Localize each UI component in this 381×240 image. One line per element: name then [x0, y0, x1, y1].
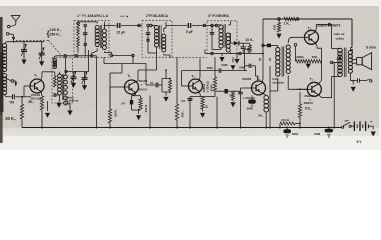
jack wires: [349, 73, 351, 80]
oscillator coil primary: [58, 74, 62, 78]
svg-text:5 K.,: 5 K.,: [305, 107, 312, 111]
svg-text:salida: salida: [335, 36, 344, 40]
T5 emitter: [315, 42, 317, 46]
wire C to IF3: [192, 25, 217, 27]
stray mark: [120, 15, 125, 17]
series capacitor .05 at T1 base: [10, 96, 11, 98]
bus node j: [299, 127, 301, 129]
IF1 bias resistor 250K: [77, 37, 80, 48]
variable capacitor C1c: [73, 72, 75, 77]
transistor T6: [307, 82, 321, 96]
page edge bar: [0, 17, 3, 143]
IF1 dashed box: [74, 21, 109, 58]
svg-text:6 V: 6 V: [357, 140, 363, 144]
svg-text:50M: 50M: [292, 132, 298, 136]
tap arrow: [14, 81, 16, 83]
svg-text:+: +: [370, 120, 372, 124]
ground C1b: [39, 61, 44, 66]
svg-text:.04: .04: [181, 99, 186, 103]
background paper: [0, 0, 381, 150]
wire to T1 base: [23, 86, 25, 97]
bias resistor 200 ohm: [296, 60, 309, 63]
svg-text:o 2SA49: o 2SA49: [243, 96, 255, 100]
diode D1: [230, 42, 234, 44]
IF1 secondary winding: [102, 29, 106, 33]
T2 base bias resistor 250K: [109, 87, 111, 109]
svg-text:10 K.,: 10 K.,: [245, 38, 254, 42]
antenna terminal node: [8, 25, 11, 28]
AGC wire y70: [182, 70, 219, 72]
wire top rail: [263, 18, 352, 20]
detector filter cap: [242, 43, 244, 46]
IF3 dashed box: [207, 21, 237, 54]
bottom bus wire: [22, 127, 342, 129]
jack symbol: [357, 78, 359, 82]
wire IF2 to C 5uF: [166, 25, 187, 27]
L1 bottom lead: [5, 95, 11, 97]
output transformer primary bottom: [332, 75, 340, 77]
IF2 secondary exit: [164, 54, 170, 57]
T2 neutralizing cap 04: [146, 84, 155, 86]
bus node b: [96, 127, 98, 129]
osc cap: [53, 94, 54, 96]
svg-text:200Ω: 200Ω: [296, 55, 304, 59]
osc feedback resistor: [53, 76, 56, 87]
wire x150 riser: [149, 96, 151, 128]
L1 tap wire: [5, 78, 12, 81]
svg-text:250 K.,: 250 K.,: [49, 33, 61, 37]
gang dashed link: [16, 39, 49, 41]
driver transformer secondary: [286, 45, 290, 49]
T3 decoupling ground: [232, 57, 234, 62]
svg-text:.04: .04: [121, 101, 126, 105]
svg-text:2SA12: 2SA12: [139, 88, 148, 92]
ferrite coil L1 lower winding: [3, 74, 7, 78]
detector bottom wire: [205, 53, 263, 55]
T3 collector wire: [199, 77, 200, 81]
riser to bus from osc wire: [96, 56, 98, 128]
T2 emitter cap .04 black: [130, 100, 133, 104]
T1 bias resistor 20K: [21, 97, 23, 104]
capacitor 15uF: [117, 23, 119, 28]
ground bl1: [47, 101, 49, 111]
driver sec top wire: [288, 37, 305, 43]
cap 50M mid-bottom: [286, 128, 288, 130]
driver pri bottom: [277, 78, 279, 91]
transistor T2: [125, 80, 139, 94]
IF3 primary winding: [219, 25, 223, 29]
ground osc coil: [59, 95, 61, 101]
coil terminal node: [6, 33, 9, 36]
driver sec bottom wire: [287, 76, 289, 90]
wire IF2 sec to 20K: [169, 57, 171, 58]
IF1 top connections: [78, 21, 97, 23]
IF2 cap plates: [146, 32, 151, 34]
bus node h: [216, 127, 218, 129]
bus node a: [41, 127, 43, 129]
bias node: [294, 43, 297, 46]
IF3 primary bottom: [220, 48, 222, 50]
transistor T5: [305, 30, 319, 44]
resistor 5K right: [299, 92, 301, 104]
oscillator dashed box: [52, 58, 73, 103]
IF2 primary bottom: [156, 47, 158, 53]
T4 emitter resistor 2K: [262, 93, 266, 96]
svg-text:500 Ω: 500 Ω: [144, 104, 148, 112]
IF2 secondary winding: [162, 34, 166, 38]
T3 emitter resistor 1K: [201, 97, 204, 109]
IF1 bias resistor 100K: [77, 22, 79, 26]
svg-text:2K.,: 2K.,: [258, 114, 264, 118]
IF3 cap plates: [210, 32, 215, 34]
jack ground: [352, 81, 354, 85]
osc winding leads: [59, 72, 61, 74]
resistor 100 ohm: [279, 124, 281, 128]
wire tuned circuit: [7, 41, 44, 43]
output sec top: [349, 48, 351, 51]
wire C to IF2: [121, 25, 142, 27]
svg-text:2SB79: 2SB79: [304, 101, 314, 105]
series cap 50M agc: [218, 68, 220, 72]
svg-text:T₃: T₃: [191, 74, 195, 78]
svg-text:100 Ω: 100 Ω: [281, 118, 290, 122]
bus node e: [149, 127, 151, 129]
variable capacitor C1b: [41, 42, 43, 47]
T5 collector: [315, 29, 317, 33]
output transformer secondary: [348, 51, 352, 55]
bias center ground: [307, 61, 309, 62]
osc feedback winding: [53, 59, 56, 62]
T3 emitter cap .04: [188, 98, 193, 100]
svg-text:o: o: [141, 83, 143, 87]
IF2 dashed box: [142, 21, 172, 58]
T1 emitter resistor 5K: [41, 92, 42, 97]
ferrite coil L1 upper winding: [3, 44, 7, 48]
IF1 primary winding: [95, 26, 99, 30]
svg-text:.05: .05: [268, 57, 272, 62]
output transformer center tap: [332, 61, 338, 63]
resistor 20K mid: [176, 57, 178, 104]
svg-text:50M: 50M: [314, 132, 320, 136]
svg-text:50M: 50M: [207, 66, 213, 70]
svg-text:50M: 50M: [247, 107, 253, 111]
volume potentiometer 10K: [249, 43, 251, 45]
dashed line mid: [172, 56, 207, 58]
IF1 node out: [110, 54, 113, 57]
wire AGC main: [104, 63, 146, 65]
cap 0+ mark: [339, 57, 341, 59]
wire pot wiper down: [244, 49, 246, 70]
svg-text:15 μF: 15 μF: [116, 30, 125, 34]
capacitor 5uF: [187, 23, 189, 28]
battery B1: [351, 125, 354, 127]
svg-text:1 K.,: 1 K.,: [284, 22, 291, 26]
IF1 primary bottom: [92, 48, 98, 54]
IF3 secondary winding: [226, 33, 230, 37]
ground C1a: [21, 60, 26, 65]
detector ground arrow: [236, 54, 238, 59]
IF3 top connections: [216, 24, 221, 26]
osc core: [61, 74, 63, 100]
output transformer primary top: [331, 24, 333, 48]
wire x146 down: [145, 64, 147, 86]
svg-text:500Ω: 500Ω: [210, 84, 214, 92]
svg-text:3° FI NEGRA: 3° FI NEGRA: [208, 14, 230, 18]
T2 collector wire: [134, 81, 138, 83]
svg-text:2°FI BLANCA: 2°FI BLANCA: [146, 14, 169, 18]
IF2 top connections: [151, 25, 157, 27]
wire 20M down: [254, 66, 256, 76]
variable capacitor C1a: [23, 42, 25, 50]
T1 collector wire: [41, 76, 42, 81]
bus node i: [265, 127, 267, 129]
svg-text:T₁: T₁: [34, 74, 38, 78]
svg-text:20K.,: 20K.,: [180, 110, 184, 117]
ground arrow 3IF: [221, 53, 223, 56]
T3 base wire: [182, 85, 189, 87]
wire to driver transformer: [263, 44, 278, 46]
riser T3 area to bus: [216, 97, 218, 128]
svg-text:50M: 50M: [221, 63, 227, 67]
ground C1c: [71, 83, 76, 88]
svg-text:T₅: T₅: [308, 27, 312, 31]
speaker LS: [357, 58, 363, 65]
wire to T2 base: [121, 64, 123, 74]
wire x263 node: [262, 44, 265, 47]
IF2 core: [159, 25, 161, 49]
ground osc box: [67, 111, 72, 116]
cap 50M bottom: [328, 128, 330, 129]
T6 emitter: [318, 80, 322, 84]
driver transformer primary: [276, 48, 280, 52]
svg-text:2SB56: 2SB56: [242, 77, 252, 81]
ground C1d: [82, 85, 87, 90]
resistor 1K rail: [284, 17, 296, 20]
svg-text:1° FI AMARILLA: 1° FI AMARILLA: [77, 14, 109, 18]
svg-text:20M: 20M: [239, 65, 245, 69]
svg-text:250K.,: 250K.,: [113, 108, 117, 117]
IF2 left wire: [147, 26, 149, 43]
svg-text:100 K.,: 100 K.,: [50, 28, 62, 32]
output core: [343, 48, 345, 77]
transistor T1: [30, 79, 44, 93]
switch SW: [342, 126, 344, 128]
svg-text:excitador: excitador: [272, 81, 284, 85]
svg-text:trafo de: trafo de: [334, 32, 345, 36]
bus node k: [333, 127, 335, 129]
bias resistor 50 ohm: [308, 60, 321, 63]
svg-text:04: 04: [150, 81, 154, 85]
T2 collector RC network: [162, 79, 170, 93]
svg-text:10Ω: 10Ω: [273, 24, 277, 30]
T4 base resistor to ground: [232, 91, 235, 100]
battery ground: [372, 126, 374, 129]
IF3 left wire: [211, 26, 213, 41]
IF1 node top: [77, 22, 80, 25]
wire osc to IF1: [54, 56, 97, 59]
T4 base wire: [241, 87, 252, 89]
IF2 primary winding: [155, 26, 159, 30]
svg-text:T₂: T₂: [127, 74, 131, 78]
bus node i2: [269, 127, 271, 129]
IF3 secondary to diode: [229, 52, 231, 54]
svg-text:50Ω: 50Ω: [312, 55, 318, 59]
bus node h2: [240, 127, 242, 129]
driver core: [281, 47, 283, 77]
oscillator coil secondary: [64, 75, 68, 79]
T3 load resistor 500: [214, 57, 216, 77]
cap .05 black: [267, 44, 271, 48]
bus node f: [176, 127, 178, 129]
T2 emitter resistor 500: [140, 96, 142, 98]
IF1 secondary exit: [104, 51, 111, 54]
svg-text:’05: ’05: [9, 101, 14, 105]
wire IF1 to C 15uF: [104, 25, 116, 27]
T3 emitter wire: [199, 91, 201, 95]
T4 collector wire: [262, 79, 263, 83]
coupling cap .04 black: [215, 90, 224, 92]
transistor T4: [252, 81, 266, 95]
T2 emitter wire: [134, 91, 135, 94]
output transformer primary: [338, 48, 343, 53]
svg-text:T₆: T₆: [310, 78, 314, 82]
svg-text:5K.,: 5K.,: [28, 100, 34, 104]
variable capacitor C1d: [84, 72, 86, 78]
L1 tap node: [11, 80, 14, 83]
transistor T3: [188, 79, 202, 93]
IF1 mid wire: [84, 26, 86, 56]
T4 bypass 50M: [251, 95, 253, 99]
antenna AN1: [11, 16, 20, 21]
T6 collector: [318, 94, 322, 98]
T6 base wire: [296, 88, 308, 90]
svg-text:5 μF: 5 μF: [186, 30, 193, 34]
svg-text:20 K.,: 20 K.,: [5, 116, 16, 121]
svg-text:8 ohm: 8 ohm: [366, 45, 376, 49]
svg-text:.05: .05: [258, 57, 262, 62]
resistor 10 ohm: [278, 19, 280, 23]
wire antenna to tuned circuit: [9, 34, 14, 37]
IF3 core: [223, 24, 225, 48]
svg-text:+: +: [244, 61, 246, 65]
bus node g: [189, 127, 191, 129]
junction dot antenna wire: [13, 41, 15, 43]
wire osc gang: [66, 71, 89, 73]
IF1 core: [99, 25, 101, 48]
bus node c: [109, 127, 111, 129]
